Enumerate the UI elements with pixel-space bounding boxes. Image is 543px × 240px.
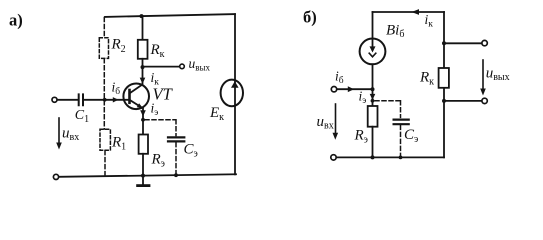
arrow inside source down (372, 40, 374, 50)
node output top b (442, 41, 446, 45)
wire dashed bias bottom (104, 151, 106, 176)
wire input b (337, 88, 373, 90)
node emitter junction b (371, 99, 375, 103)
wire dashed bias middle (103, 59, 105, 129)
node ground junction (141, 174, 145, 178)
wire Rk to collector node (142, 59, 144, 67)
source Bi_b circle (360, 39, 386, 65)
capacitor C1 (79, 94, 83, 105)
wire dashed to Ce a (145, 120, 176, 136)
wire source to input node b (372, 64, 374, 106)
ground (142, 176, 144, 186)
svg-text:а): а) (9, 11, 23, 30)
terminal output bottom b (482, 98, 487, 103)
node output bottom b (442, 99, 446, 103)
wire top to Rk (142, 16, 144, 40)
wire dashed Ce to bottom a (175, 143, 177, 176)
transistor VT collector lead (130, 85, 143, 94)
wire Re to bottom b (372, 127, 374, 158)
capacitor Ce a (168, 137, 184, 141)
node Re bottom b (371, 155, 375, 159)
arrow current i_k b (leftward) (412, 9, 420, 15)
arrow u_in a (58, 118, 60, 144)
resistor Rk a (138, 40, 148, 59)
svg-text:VT: VT (153, 85, 174, 104)
wire bottom rail b (337, 156, 445, 158)
wire collector a (142, 67, 144, 85)
wire output bottom tap b (444, 100, 482, 102)
svg-text:б): б) (303, 7, 317, 26)
terminal input b (331, 87, 336, 92)
node Ce bottom b (399, 156, 403, 160)
arrow current i_b b (348, 86, 354, 92)
arrow current i_e a (140, 110, 146, 116)
transistor VT emitter lead (130, 100, 142, 108)
wire top to source b (372, 12, 374, 39)
wire Re to bottom (142, 154, 144, 176)
node top rail / Rk junction (140, 14, 144, 18)
node Ce bottom (174, 173, 178, 177)
capacitor Ce b (394, 120, 409, 125)
resistor Rk b (439, 68, 449, 88)
wire right branch b (443, 12, 445, 157)
arrow u_out b (482, 60, 484, 90)
node emitter junction (141, 118, 145, 122)
wire dashed Ce to bottom b (400, 125, 402, 157)
terminal output top b (482, 40, 487, 45)
wire bottom rail a (59, 174, 236, 177)
terminal u_out a (180, 64, 185, 69)
wire top rail b (373, 11, 445, 13)
source Ek circle (221, 80, 243, 107)
arrow inside Ek up (231, 81, 239, 88)
transistor VT circle (123, 84, 149, 110)
resistor Re b (368, 106, 378, 127)
wire top rail a (105, 14, 235, 17)
arrow u_in b (335, 104, 337, 135)
node bias/base junction (103, 98, 107, 102)
arrow current i_e b (370, 94, 376, 100)
wire base a (84, 99, 130, 101)
wire emitter a (142, 108, 144, 135)
wire dashed to Ce b (375, 101, 401, 118)
transistor VT emitter arrow (137, 103, 143, 108)
resistor R1 (dashed) (100, 129, 110, 150)
node collector/output junction (141, 65, 145, 69)
transistor VT base bar (128, 90, 131, 103)
resistor R2 (dashed) (99, 38, 108, 59)
node input junction b (371, 87, 375, 91)
terminal bottom-left b (331, 155, 336, 160)
terminal bottom-left a (53, 174, 58, 179)
terminal input a (52, 97, 57, 102)
wire input to C1 (58, 99, 78, 101)
arrow current i_k a (140, 78, 146, 84)
wire dashed bias top (103, 18, 105, 38)
arrow current i_b a (113, 97, 119, 102)
resistor Re a (139, 135, 148, 154)
wire output tap a (143, 66, 180, 68)
wire right branch Ek vertical (234, 14, 236, 174)
wire output top tap b (444, 42, 482, 44)
